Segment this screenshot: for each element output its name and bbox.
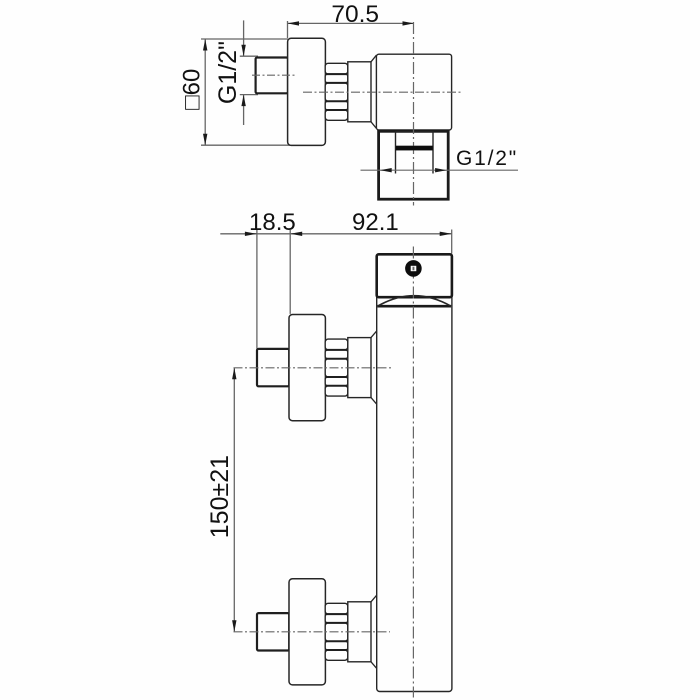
handle 2 knurl separator lines — [326, 614, 347, 650]
handle 2 knurl bands — [325, 603, 348, 660]
dimension G1/2 outlet line — [361, 169, 519, 171]
dimension G1/2 (stem) arrows — [241, 45, 245, 106]
outlet vertical centerline — [413, 22, 415, 206]
screw outer (top) — [405, 260, 422, 277]
handle 2 escutcheon cone — [371, 595, 377, 668]
handle 2 body — [289, 579, 325, 685]
knurled nut bands (side view) — [325, 63, 348, 120]
dimension 150+-21 text — [206, 455, 234, 538]
dimension G1/2 (stem) lines — [240, 20, 258, 125]
handle 1 knurl bands — [325, 339, 348, 396]
dimension 18.5 / 92.1 line — [220, 230, 451, 349]
svg-text:92.1: 92.1 — [352, 209, 399, 236]
handle body (side view) — [288, 38, 326, 145]
dimension 150+-21 line — [233, 368, 235, 632]
dimension G1/2 (stem) text — [214, 41, 242, 104]
handle 1 adapter — [348, 338, 371, 398]
stem centerline (side view) — [252, 74, 296, 76]
dimension square60 arrows — [203, 39, 207, 145]
outlet nipple thick bar — [396, 146, 433, 151]
dimension 70.5 line — [288, 21, 415, 38]
handle 1 escutcheon cone — [371, 331, 377, 404]
dimension 70.5 arrows — [288, 21, 415, 25]
handle 1 body — [289, 315, 325, 421]
wall body (side view) — [376, 54, 451, 130]
outlet housing (side view) — [379, 131, 449, 199]
dimension G1/2 outlet arrows — [380, 168, 446, 172]
handle stem (side view) — [256, 58, 288, 94]
dimension 150+-21 arrows — [232, 368, 236, 632]
svg-text:G1/2": G1/2" — [214, 41, 242, 104]
knurl separator lines (side view) — [326, 74, 347, 110]
svg-text:70.5: 70.5 — [331, 1, 379, 28]
under-cap thick line — [377, 305, 451, 308]
front body vertical centerline — [412, 247, 414, 698]
svg-text:G1/2": G1/2" — [456, 147, 518, 170]
svg-text:□60: □60 — [178, 69, 205, 110]
escutcheon cone (side view) — [371, 55, 376, 128]
adapter (side view) — [348, 62, 371, 122]
main axis centerline (side view) — [303, 91, 462, 93]
handle 1 knurl separator lines — [326, 350, 347, 386]
screw slot (top) — [411, 266, 417, 271]
handle 2 axis centerline — [234, 631, 391, 633]
svg-text:150±21: 150±21 — [206, 455, 234, 538]
dimension square60 line — [201, 39, 291, 145]
front body top cap — [377, 254, 452, 297]
dimension square60 text — [178, 69, 205, 110]
svg-text:18.5: 18.5 — [249, 209, 296, 236]
handle 1 axis centerline — [234, 367, 394, 369]
front body outline — [377, 254, 452, 691]
handle 2 stem — [257, 613, 289, 650]
handle 2 adapter — [348, 602, 371, 662]
outlet nipple (side view) — [396, 132, 434, 174]
screw slot mark (top) — [413, 267, 415, 271]
dimension 18.5 / 92.1 arrows — [245, 232, 452, 236]
under-cap arc — [378, 296, 451, 307]
handle 1 stem — [257, 349, 289, 386]
outlet nipple thick bar (top) — [396, 146, 433, 151]
